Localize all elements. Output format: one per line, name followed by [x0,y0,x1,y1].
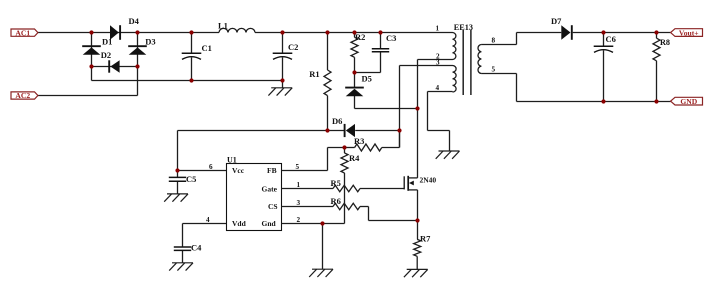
svg-text:C1: C1 [202,43,212,53]
svg-text:C6: C6 [606,34,616,44]
svg-text:C3: C3 [386,33,396,43]
svg-text:C2: C2 [288,42,298,52]
svg-text:C4: C4 [191,242,202,252]
svg-text:EE13: EE13 [454,23,473,32]
svg-text:R2: R2 [355,32,365,42]
svg-text:U1: U1 [227,156,237,165]
svg-text:D6: D6 [332,116,342,126]
svg-text:R5: R5 [331,178,341,188]
svg-text:1: 1 [436,25,440,33]
svg-text:R6: R6 [331,196,341,206]
svg-text:FB: FB [267,166,277,175]
svg-text:5: 5 [492,66,496,74]
svg-text:2: 2 [297,216,301,224]
svg-text:4: 4 [206,216,210,224]
svg-text:D1: D1 [102,37,112,47]
svg-text:D7: D7 [551,16,562,26]
svg-text:C5: C5 [186,174,196,184]
svg-text:L1: L1 [218,20,228,30]
svg-text:AC2: AC2 [15,91,30,100]
svg-text:5: 5 [296,163,300,171]
svg-text:R8: R8 [660,38,670,47]
svg-text:CS: CS [268,202,278,211]
svg-text:Gate: Gate [262,184,278,193]
svg-text:Gnd: Gnd [262,219,277,228]
svg-text:8: 8 [492,37,496,45]
svg-text:Vout+: Vout+ [679,28,699,37]
svg-text:D2: D2 [101,50,111,60]
svg-text:3: 3 [436,59,440,67]
svg-text:1: 1 [297,181,301,189]
svg-text:R3: R3 [354,136,364,146]
svg-text:3: 3 [297,199,301,207]
svg-text:AC1: AC1 [15,28,30,37]
svg-text:D5: D5 [362,73,372,83]
svg-text:R4: R4 [349,153,360,163]
svg-text:D3: D3 [145,37,155,47]
svg-text:D4: D4 [129,16,140,26]
svg-text:Vdd: Vdd [232,219,247,228]
svg-text:R1: R1 [309,69,319,79]
svg-text:Vcc: Vcc [232,166,245,175]
svg-text:GND: GND [680,97,697,106]
svg-text:2N40: 2N40 [420,175,437,184]
svg-text:4: 4 [436,84,440,92]
svg-text:R7: R7 [420,234,431,244]
svg-text:6: 6 [209,163,213,171]
